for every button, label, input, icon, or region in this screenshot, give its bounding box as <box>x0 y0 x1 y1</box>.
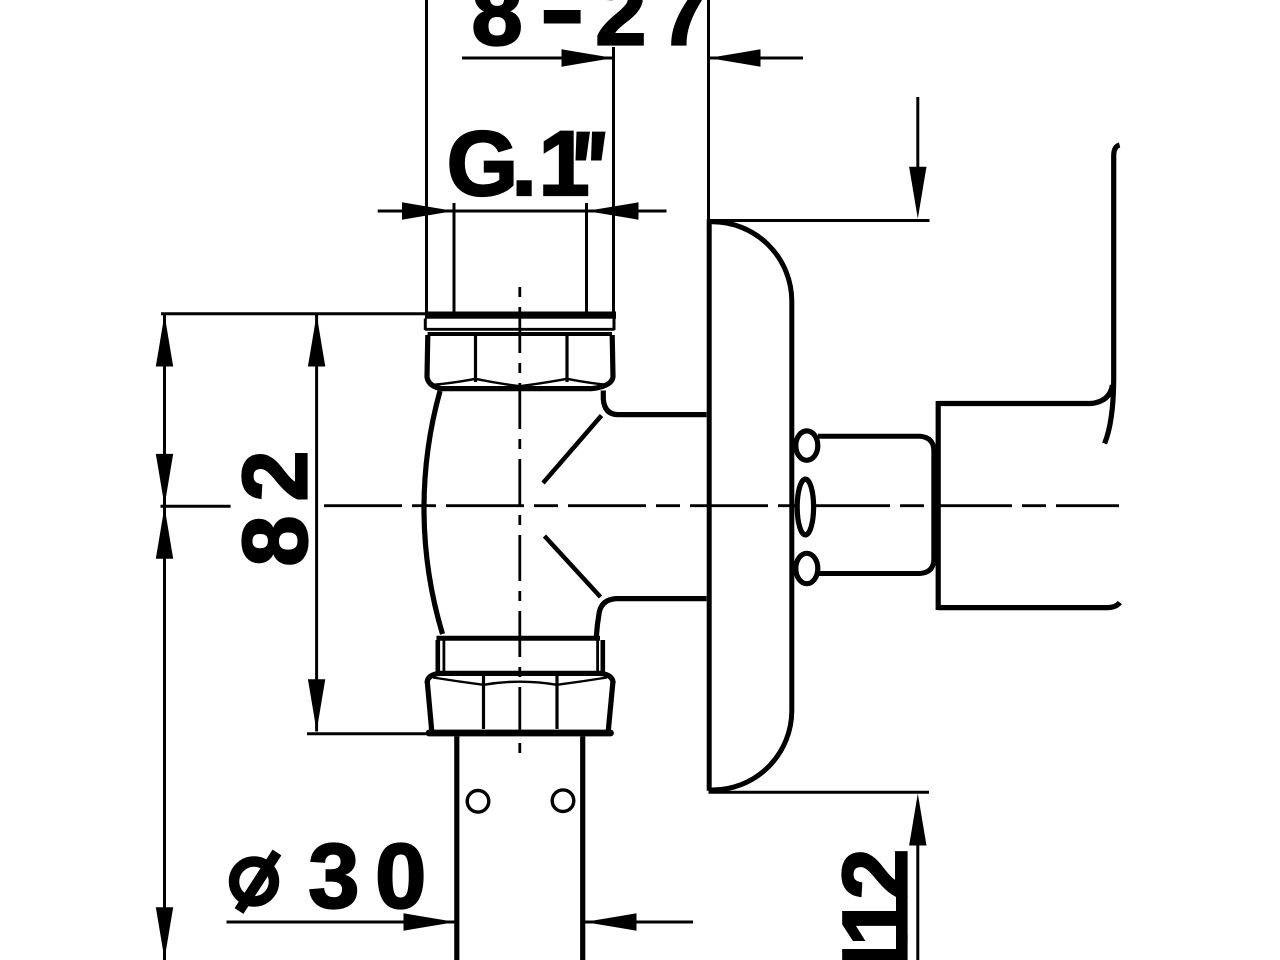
extension line pipe thread left <box>425 0 428 313</box>
svg-text:2: 2 <box>825 849 927 900</box>
arrow dia30 left <box>404 913 456 930</box>
horizontal centerline <box>324 504 1119 507</box>
stem outline <box>818 436 934 573</box>
body cone diagonal upper <box>543 416 602 484</box>
dimension line G.1 <box>378 210 667 213</box>
collar inner right <box>596 640 599 671</box>
vertical centerline <box>518 287 521 757</box>
label 8-27 dash <box>544 10 581 24</box>
label G.1 quote marks <box>576 132 606 161</box>
screw collar middle <box>797 479 813 535</box>
svg-text:1: 1 <box>539 113 590 215</box>
label G.1 letter G <box>447 113 519 215</box>
extension tick centerline level <box>161 505 231 508</box>
dimension line 8-27 <box>462 57 803 60</box>
svg-text:G: G <box>447 113 519 215</box>
label 8-27 digits 27 <box>595 0 723 65</box>
extension line 112 top <box>709 219 930 222</box>
body right wall upper / outlet top <box>603 391 706 415</box>
top washer band <box>425 312 616 319</box>
extension line wall face <box>707 0 710 222</box>
arrow 82 top <box>308 315 325 367</box>
pipe hole right <box>552 790 574 812</box>
collar outer left <box>435 640 440 672</box>
screw collar bottom <box>796 553 818 583</box>
handle lever blade <box>1105 145 1120 444</box>
dimension line dia30 left <box>227 921 456 924</box>
label G.1 period <box>511 113 537 215</box>
arrow 8-27 right <box>709 49 761 66</box>
arrow G.1 left <box>402 202 454 219</box>
label G.1 digit 1 <box>539 113 590 215</box>
collar outer right <box>600 640 605 672</box>
top hex nut chamfer wave <box>433 379 607 386</box>
body outlet bottom / right wall lower <box>596 599 706 638</box>
screw collar top <box>796 431 818 460</box>
bottom hex nut bottom edge <box>429 730 611 737</box>
svg-text:1: 1 <box>825 933 927 960</box>
pipe right edge <box>580 736 585 960</box>
label 8-27 digit 8 <box>472 0 523 65</box>
label 82 <box>225 437 327 567</box>
top hex nut outline <box>427 334 613 389</box>
label 112 digit 1a <box>825 933 927 960</box>
dimension line left chain <box>163 314 166 960</box>
bottom hex nut top edge <box>427 673 613 683</box>
svg-text:.: . <box>511 113 537 215</box>
extension line pipe thread right <box>612 47 615 313</box>
svg-text:82: 82 <box>225 437 327 567</box>
arrow chain bottom <box>156 907 173 959</box>
dimension line 112 bottom <box>916 845 919 960</box>
extension line thread minor right <box>585 203 588 313</box>
pipe hole left <box>467 791 489 813</box>
arrow chain top <box>156 315 173 367</box>
dimension line dia30 right <box>585 921 694 924</box>
label dia30 circle slash <box>234 853 277 912</box>
label dia30 digits <box>308 826 442 928</box>
arrow 82 bottom <box>308 679 325 731</box>
svg-text:8: 8 <box>472 0 523 65</box>
top hex nut facet right <box>565 335 568 382</box>
dimension line 82 <box>315 314 318 732</box>
extension line 82 top <box>161 312 427 315</box>
label 112 digit 2 <box>825 849 927 900</box>
dimension line 112 top <box>916 97 919 170</box>
arrow 8-27 left <box>562 49 614 66</box>
handle body bottom edge <box>938 603 1120 608</box>
arrow chain mid upper <box>156 454 173 506</box>
bottom hex nut facet right <box>555 676 558 729</box>
top washer outline <box>425 319 615 331</box>
label 112 digit 1b <box>825 895 927 946</box>
arrow dia30 right <box>585 913 637 930</box>
collar inner left <box>442 640 445 671</box>
top hex nut facet left <box>474 335 477 382</box>
body left wall <box>424 391 443 634</box>
arrow chain mid lower <box>156 507 173 559</box>
svg-text:30: 30 <box>308 826 442 928</box>
pipe left edge <box>454 736 459 960</box>
bottom hex nut facet left <box>482 676 485 729</box>
bottom hex nut side left <box>427 681 432 731</box>
svg-text:27: 27 <box>595 0 723 65</box>
body bottom edge <box>437 636 601 641</box>
handle body left face <box>936 401 941 610</box>
bottom hex nut side right <box>608 681 613 731</box>
bottom hex nut chamfer wave <box>433 678 607 685</box>
extension line 112 bottom <box>709 791 930 794</box>
handle body top edge <box>938 385 1112 404</box>
body cone diagonal lower <box>545 536 601 597</box>
arrow 112 top <box>909 167 926 219</box>
extension line thread minor left <box>453 203 456 313</box>
dome outline <box>709 222 792 791</box>
extension line 82 bottom <box>307 732 438 735</box>
arrow G.1 right <box>587 202 639 219</box>
arrow 112 bottom <box>909 794 926 846</box>
